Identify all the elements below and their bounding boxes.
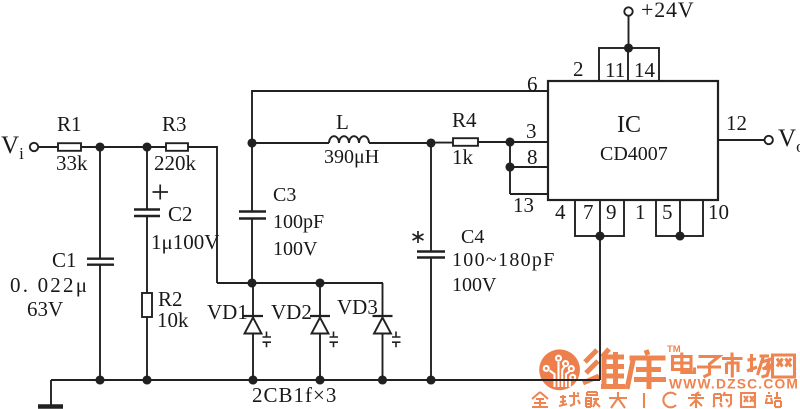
svg-text:IC: IC bbox=[617, 112, 641, 138]
ground symbol bbox=[38, 380, 63, 407]
svg-text:4: 4 bbox=[555, 200, 566, 224]
svg-text:100V: 100V bbox=[452, 274, 497, 296]
watermark logo circle bbox=[539, 349, 580, 390]
rail junction VD1 bbox=[249, 376, 256, 383]
node E junction (pin3 bracket) bbox=[506, 138, 513, 145]
watermark big char KU bbox=[627, 350, 666, 389]
varactor diode VD3 bbox=[373, 283, 401, 380]
wire node A to node B bbox=[100, 146, 147, 148]
input terminal Vi bbox=[30, 143, 38, 151]
watermark char SHI bbox=[722, 353, 743, 378]
watermark char WANG bbox=[773, 355, 795, 377]
svg-text:2: 2 bbox=[573, 57, 584, 81]
ground rail wire bbox=[51, 379, 600, 381]
resistor R2 bbox=[142, 293, 152, 380]
svg-text:5: 5 bbox=[662, 200, 673, 224]
svg-text:10: 10 bbox=[708, 200, 729, 224]
top rail wire (pin 6) bbox=[252, 91, 548, 143]
svg-text:CD4007: CD4007 bbox=[600, 143, 668, 165]
svg-text:100V: 100V bbox=[273, 238, 318, 260]
svg-text:L: L bbox=[336, 110, 349, 134]
VD rail wire bbox=[217, 282, 383, 284]
capacitor C1 bbox=[87, 147, 114, 380]
wire Vi to R1 bbox=[38, 146, 58, 148]
+24V supply terminal bbox=[624, 7, 632, 51]
svg-text:VD2: VD2 bbox=[271, 300, 312, 324]
resistor R1 bbox=[58, 143, 81, 151]
resistor R4 bbox=[453, 138, 478, 146]
svg-text:TM: TM bbox=[667, 344, 681, 355]
svg-text:12: 12 bbox=[726, 111, 747, 135]
svg-text:390μH: 390μH bbox=[324, 146, 379, 168]
svg-text:2CB1f×3: 2CB1f×3 bbox=[252, 383, 337, 407]
svg-text:C1: C1 bbox=[52, 248, 77, 272]
svg-text:VD3: VD3 bbox=[337, 295, 378, 319]
node C3 bottom junction bbox=[248, 279, 255, 286]
varactor diode VD1 bbox=[243, 283, 271, 380]
svg-text:1μ100V: 1μ100V bbox=[151, 230, 219, 254]
svg-text:11: 11 bbox=[605, 58, 625, 82]
node D junction (C4 top) bbox=[427, 139, 434, 146]
svg-text:6: 6 bbox=[527, 72, 538, 96]
svg-text:C3: C3 bbox=[273, 184, 296, 206]
output terminal Vo bbox=[765, 136, 773, 144]
svg-text:14: 14 bbox=[634, 58, 656, 82]
svg-text:33k: 33k bbox=[56, 151, 88, 175]
svg-text:100pF: 100pF bbox=[273, 211, 324, 233]
wire IC pin 12 to output bbox=[718, 139, 765, 141]
svg-text:63V: 63V bbox=[27, 297, 63, 321]
svg-text:10k: 10k bbox=[157, 308, 189, 332]
svg-text:8: 8 bbox=[527, 145, 538, 169]
IC top pin box 11/14 bbox=[599, 48, 659, 81]
varactor diode VD2 bbox=[310, 283, 338, 380]
svg-text:220k: 220k bbox=[154, 151, 197, 175]
capacitor C3 bbox=[239, 143, 266, 283]
svg-text:1k: 1k bbox=[452, 145, 474, 169]
IC U1 CD4007 body bbox=[548, 81, 718, 200]
wire bracket vertical 3-8-13 bbox=[509, 142, 511, 194]
svg-text:Vi: Vi bbox=[1, 132, 24, 163]
node B junction bbox=[143, 143, 150, 150]
wire R4 to IC pin 3 bbox=[478, 141, 548, 143]
svg-text:VD1: VD1 bbox=[207, 300, 248, 324]
svg-text:100~180pF: 100~180pF bbox=[452, 249, 556, 271]
wire node to inductor L bbox=[252, 142, 329, 144]
watermark big char WEI bbox=[583, 349, 625, 389]
wire R3 right then down to VD rail bbox=[188, 147, 217, 283]
inductor L bbox=[329, 136, 369, 143]
svg-text:0. 022μ: 0. 022μ bbox=[10, 273, 89, 297]
svg-text:1: 1 bbox=[635, 200, 646, 224]
capacitor C2 (electrolytic) bbox=[134, 147, 168, 293]
node C3/L junction bbox=[248, 139, 255, 146]
node A junction bbox=[96, 143, 103, 150]
watermark char DIAN bbox=[673, 353, 695, 373]
IC bottom pin box 7/9 bbox=[575, 200, 624, 240]
svg-text:7: 7 bbox=[583, 200, 594, 224]
resistor R3 bbox=[166, 143, 188, 151]
rail junction VD2 bbox=[316, 376, 323, 383]
wire node B to R3 bbox=[147, 146, 166, 148]
IC bottom pin box 5/x bbox=[656, 200, 703, 240]
svg-text:C2: C2 bbox=[168, 202, 193, 226]
svg-text:Vo: Vo bbox=[778, 125, 800, 156]
wire node D to R4 bbox=[431, 142, 453, 144]
svg-text:3: 3 bbox=[526, 119, 537, 143]
C4 asterisk mark bbox=[413, 231, 424, 243]
rail junction C1 bbox=[96, 376, 103, 383]
svg-text:9: 9 bbox=[606, 200, 617, 224]
svg-text:R1: R1 bbox=[57, 112, 82, 136]
watermark char ZI bbox=[697, 357, 721, 378]
svg-text:+24V: +24V bbox=[641, 0, 695, 22]
capacitor C4 bbox=[417, 143, 445, 380]
watermark char CHANG bbox=[747, 354, 771, 377]
svg-text:WWW.DZSC.COM: WWW.DZSC.COM bbox=[669, 377, 799, 392]
svg-text:C4: C4 bbox=[461, 226, 484, 248]
svg-text:13: 13 bbox=[513, 193, 534, 217]
wire R1 to node A bbox=[81, 146, 100, 148]
rail junction C4 bbox=[427, 376, 434, 383]
watermark bottom row bbox=[532, 392, 781, 408]
svg-text:R3: R3 bbox=[162, 112, 187, 136]
wire IC pins 7/9 to ground rail bbox=[599, 236, 601, 380]
wire to IC pin 8 bbox=[510, 166, 548, 168]
rail junction R2 bbox=[143, 376, 150, 383]
node F junction (pin8) bbox=[506, 163, 513, 170]
wire to IC pin 13 bbox=[510, 193, 548, 195]
node VD2 top junction bbox=[316, 279, 323, 286]
svg-text:R4: R4 bbox=[452, 108, 477, 132]
wire L to node D bbox=[369, 142, 431, 144]
rail junction VD3 bbox=[379, 376, 386, 383]
